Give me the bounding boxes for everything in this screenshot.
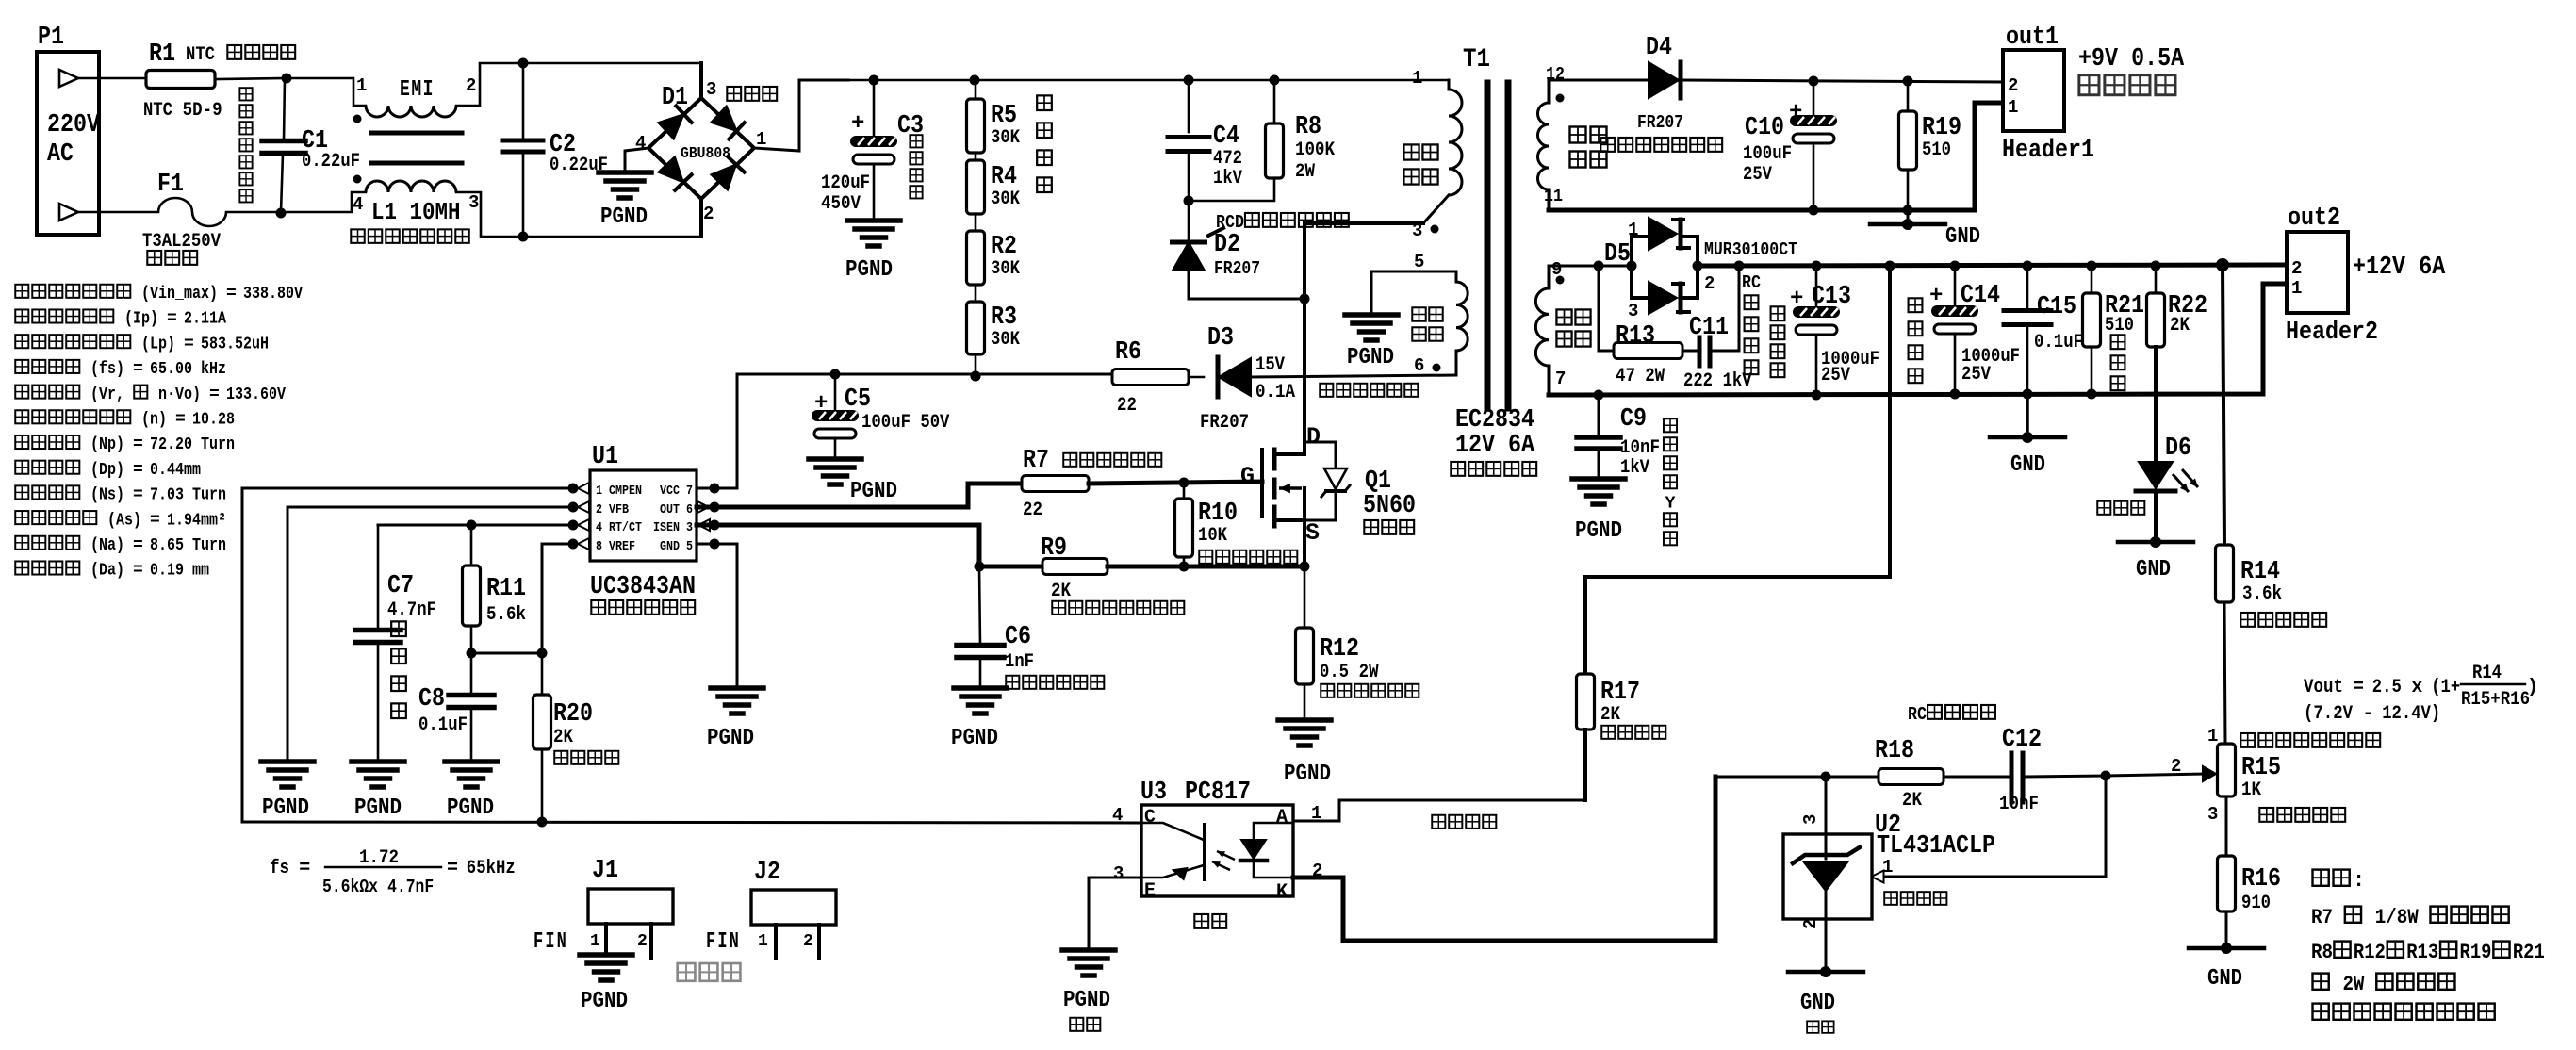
svg-text:22: 22 [1117, 395, 1137, 417]
wire sec9-D5 [1549, 261, 1604, 271]
formula fs [270, 847, 516, 897]
svg-text:S: S [1305, 519, 1320, 547]
svg-text:R5: R5 [991, 102, 1017, 130]
svg-text:GND: GND [1945, 224, 1980, 250]
svg-text:0.22uF: 0.22uF [302, 151, 360, 172]
resistor R4 [967, 153, 1021, 214]
svg-text:=: = [299, 858, 310, 879]
svg-text:1.94mm²: 1.94mm² [167, 511, 226, 530]
capacitor C6 [957, 566, 1104, 689]
svg-text:FIN: FIN [533, 929, 568, 955]
svg-text:12V 6A: 12V 6A [1455, 432, 1535, 460]
svg-text:=: = [447, 858, 458, 879]
svg-text:R13: R13 [1616, 322, 1655, 351]
svg-text:1kV: 1kV [1213, 168, 1242, 189]
svg-text:(7.2V: (7.2V [2304, 703, 2353, 725]
svg-text:=: = [175, 411, 186, 430]
svg-text:6: 6 [1414, 355, 1424, 376]
svg-text:2W: 2W [1645, 366, 1665, 387]
svg-text:=: = [133, 562, 143, 581]
svg-text:65.00: 65.00 [150, 360, 192, 379]
ground PGND (C5) [809, 459, 897, 504]
svg-text:C9: C9 [1620, 405, 1647, 434]
dual diode D5 [1599, 218, 1797, 321]
svg-text:22: 22 [1023, 500, 1042, 521]
svg-text:F1: F1 [157, 171, 184, 199]
svg-text::: : [2353, 869, 2365, 893]
svg-text:2: 2 [2008, 75, 2018, 96]
svg-text:OUT 6: OUT 6 [660, 503, 693, 517]
svg-text:D: D [1306, 423, 1321, 451]
svg-text:EC2834: EC2834 [1455, 406, 1534, 435]
svg-text:25V: 25V [1821, 365, 1850, 386]
svg-text:1: 1 [2008, 97, 2018, 118]
svg-text:C7: C7 [387, 572, 414, 600]
connector Header2 [2286, 205, 2446, 347]
resistor R5 [967, 80, 1021, 153]
svg-text:2K: 2K [2170, 315, 2190, 336]
connector J1 [533, 857, 673, 958]
svg-text:AC: AC [47, 140, 74, 169]
svg-text:+9V: +9V [2078, 45, 2119, 74]
svg-text:R19: R19 [1922, 114, 1961, 142]
svg-text:4.7nF: 4.7nF [387, 599, 436, 621]
svg-text:=: = [150, 511, 160, 530]
wire L1.2-rail [456, 58, 701, 107]
svg-text:2: 2 [703, 204, 714, 224]
svg-text:R8: R8 [1295, 113, 1321, 141]
diode D2 [1170, 201, 1304, 299]
svg-text:P1: P1 [38, 24, 64, 52]
svg-text:L1: L1 [371, 198, 397, 226]
resistor R6 [1112, 338, 1204, 417]
svg-text:out2: out2 [2288, 205, 2340, 233]
svg-text:R14: R14 [2472, 663, 2502, 684]
svg-text:2W: 2W [2342, 973, 2365, 996]
svg-text:C8: C8 [418, 685, 445, 714]
svg-text:MUR30100CT: MUR30100CT [1704, 239, 1797, 260]
svg-text:(Vr,: (Vr, [90, 386, 124, 404]
svg-text:C10: C10 [1745, 114, 1784, 142]
svg-text:UC3843AN: UC3843AN [590, 573, 696, 601]
wire U3.2 to R18 node [1293, 777, 1715, 941]
capacitor C5 [812, 374, 949, 459]
svg-text:2K: 2K [1051, 581, 1071, 602]
svg-text:=: = [2353, 677, 2364, 698]
capacitor C14 [1929, 266, 2020, 394]
svg-text:4 RT/CT: 4 RT/CT [596, 521, 642, 535]
svg-text:2: 2 [2171, 756, 2181, 777]
svg-text:R7: R7 [1023, 447, 1049, 475]
resistor R17 [1577, 266, 1891, 800]
wire R7-gate [1089, 478, 1262, 488]
svg-text:Turn: Turn [192, 536, 226, 555]
capacitor C1 [262, 78, 360, 212]
wire U2 ref [1872, 776, 2107, 883]
svg-text:C13: C13 [1812, 283, 1851, 311]
svg-text:PGND: PGND [845, 257, 893, 283]
svg-text:PGND: PGND [951, 726, 998, 751]
wire U1.2 net [287, 507, 573, 762]
wire 0V rail [1549, 284, 2288, 401]
svg-text:R12: R12 [1320, 635, 1359, 664]
wire C12-R15 wiper [2106, 756, 2216, 781]
svg-text:=: = [133, 461, 143, 480]
svg-text:D5: D5 [1604, 240, 1631, 269]
svg-text:R12: R12 [2354, 941, 2386, 964]
svg-text:PGND: PGND [707, 726, 754, 751]
svg-text:220V: 220V [47, 111, 101, 139]
svg-text:5D-9: 5D-9 [183, 100, 222, 122]
svg-text:RC: RC [1908, 704, 1927, 725]
svg-text:(n): (n) [141, 411, 167, 430]
svg-text:472: 472 [1213, 148, 1242, 170]
svg-text:25V: 25V [1743, 164, 1772, 186]
svg-text:72.20: 72.20 [150, 435, 192, 454]
svg-text:9: 9 [1551, 259, 1562, 280]
svg-text:out1: out1 [2006, 24, 2059, 52]
svg-text:12: 12 [1546, 64, 1565, 85]
svg-text:R15: R15 [2241, 754, 2281, 782]
svg-text:NTC: NTC [143, 100, 172, 122]
svg-text:10.28: 10.28 [192, 411, 235, 430]
svg-text:2K: 2K [1902, 790, 1922, 812]
wire U1.8 VREF [467, 544, 574, 659]
svg-text:+: + [814, 391, 828, 417]
svg-text:2: 2 [2291, 258, 2302, 279]
svg-text:(Na): (Na) [90, 536, 124, 555]
svg-text:1: 1 [1412, 68, 1422, 89]
resistor R8 [1184, 80, 1336, 206]
resistor R7 [1022, 447, 1161, 521]
svg-text:GND: GND [2136, 557, 2171, 582]
svg-text:R4: R4 [991, 163, 1017, 191]
svg-text:47: 47 [1616, 366, 1635, 387]
svg-text:510: 510 [1922, 139, 1951, 161]
svg-text:1.72: 1.72 [359, 847, 399, 869]
svg-text:VCC 7: VCC 7 [660, 484, 693, 499]
wire U1.5 GND [697, 544, 737, 688]
fuse F1 [99, 171, 226, 265]
label T1 [1451, 406, 1536, 476]
T1 primary winding [1403, 68, 1462, 241]
svg-text:5: 5 [1414, 252, 1424, 272]
diode D3 [1200, 324, 1456, 434]
capacitor C15 [2004, 266, 2083, 394]
svg-text:65kHz: 65kHz [467, 858, 516, 879]
svg-text:kHz: kHz [201, 360, 226, 379]
connector Header1 [2002, 24, 2185, 165]
capacitor C4 [1168, 80, 1242, 201]
svg-text:D2: D2 [1214, 231, 1240, 259]
svg-text:(fs): (fs) [90, 360, 124, 379]
ground PGND (D1) [599, 172, 651, 230]
svg-text:GND 5: GND 5 [660, 540, 693, 554]
wire U1.7 VCC [697, 374, 737, 488]
svg-text:D6: D6 [2165, 435, 2191, 463]
svg-text:D3: D3 [1207, 324, 1234, 353]
capacitor C13 [1790, 266, 1879, 395]
svg-text:R18: R18 [1875, 737, 1914, 765]
svg-text:T1: T1 [1463, 45, 1490, 74]
ground PGND (VFB) [261, 762, 314, 821]
ground GND (U2) [1788, 966, 1863, 1033]
svg-text:133.60V: 133.60V [226, 386, 286, 404]
svg-text:EMI: EMI [400, 77, 435, 103]
svg-text:Header1: Header1 [2002, 137, 2094, 165]
ground PGND (C8) [445, 762, 498, 821]
resistor R2 [967, 214, 1021, 285]
wire +12V rail [1698, 258, 2288, 271]
svg-text:A: A [1276, 807, 1288, 829]
svg-text:10nF: 10nF [1620, 437, 1660, 459]
svg-text:0.5: 0.5 [1320, 662, 1349, 683]
svg-text:1: 1 [356, 75, 367, 96]
svg-text:ISEN 3: ISEN 3 [653, 521, 693, 535]
resistor R19 [1899, 81, 1962, 210]
svg-text:D4: D4 [1646, 34, 1672, 62]
svg-text:C14: C14 [1961, 282, 2000, 310]
svg-text:PGND: PGND [1347, 345, 1394, 370]
svg-text:0.44mm: 0.44mm [150, 461, 201, 480]
resistor R11 [463, 525, 527, 653]
svg-text:R21: R21 [2513, 941, 2545, 964]
svg-text:1: 1 [590, 932, 600, 951]
LED D6 [2097, 347, 2198, 542]
svg-text:1: 1 [758, 932, 768, 951]
svg-text:+: + [1789, 100, 1802, 125]
wire R1-node-L1.1 [215, 74, 366, 107]
wire aux5-pgnd [1370, 271, 1373, 315]
wire VCC rail [737, 369, 1112, 489]
label RCD [1216, 212, 1349, 233]
svg-text:1: 1 [2291, 278, 2302, 299]
label secondary supply [1320, 384, 1418, 397]
svg-text:3: 3 [1800, 814, 1821, 825]
svg-text:15V: 15V [1255, 354, 1285, 376]
svg-text:2: 2 [803, 932, 813, 951]
svg-text:R7: R7 [2311, 906, 2333, 929]
svg-text:GBU808: GBU808 [681, 145, 730, 163]
capacitor C2 [503, 63, 608, 237]
resistor R3 [967, 285, 1021, 354]
svg-text:x: x [2411, 677, 2422, 698]
svg-text:=: = [167, 310, 177, 329]
ground GND (D6) [2118, 536, 2193, 582]
bridge rectifier D1 [625, 63, 848, 237]
svg-text:PGND: PGND [1575, 518, 1622, 544]
svg-text:TL431ACLP: TL431ACLP [1877, 832, 1995, 861]
wire R3-VCC rail [971, 354, 981, 382]
formula Vout [2304, 663, 2538, 725]
svg-text:C12: C12 [2002, 726, 2042, 754]
svg-text:=: = [184, 335, 194, 353]
wire U3.1 feedback [1293, 800, 1585, 829]
svg-text:2: 2 [466, 75, 476, 96]
svg-text:R10: R10 [1198, 500, 1238, 528]
svg-text:10nF: 10nF [1999, 794, 2039, 815]
label C13 vertical [1771, 306, 1785, 377]
svg-text:(Dp): (Dp) [90, 461, 124, 480]
wire HV rail [848, 75, 1449, 86]
wire U1.6 OUT [697, 484, 1022, 507]
svg-text:PGND: PGND [447, 796, 494, 821]
svg-text:R13: R13 [2406, 941, 2438, 964]
svg-text:Header2: Header2 [2286, 319, 2378, 347]
svg-text:J2: J2 [754, 859, 780, 887]
optocoupler U3 [1112, 779, 1322, 928]
svg-text:+: + [1790, 287, 1803, 312]
resistor R1 NTC [143, 41, 295, 122]
wire U3.3-pgnd [1089, 878, 1141, 950]
svg-text:-: - [2362, 703, 2373, 725]
svg-text:R3: R3 [991, 304, 1017, 332]
T1 aux winding [1371, 252, 1468, 376]
svg-text:8.65: 8.65 [150, 536, 184, 555]
svg-text:FR207: FR207 [1637, 112, 1683, 133]
ground PGND (U1) [707, 688, 763, 751]
wire drain [1300, 223, 1424, 429]
svg-text:583.52uH: 583.52uH [201, 335, 269, 353]
ground PGND (U3) [1062, 950, 1115, 1031]
svg-text:30K: 30K [991, 258, 1020, 280]
svg-text:2: 2 [1704, 273, 1715, 294]
wire P1.1-R1 [99, 77, 146, 80]
svg-text:(Ip): (Ip) [124, 310, 158, 329]
ground GND (fan) [1870, 210, 1980, 250]
ground PGND (aux) [1345, 315, 1398, 370]
svg-text:100uF: 100uF [861, 412, 911, 434]
svg-text:338.80V: 338.80V [243, 285, 303, 304]
svg-text:GND: GND [1800, 991, 1835, 1016]
svg-text:(As): (As) [107, 511, 141, 530]
svg-text:1: 1 [2207, 726, 2218, 746]
resistor R9 [979, 534, 1184, 615]
svg-text:1: 1 [756, 129, 766, 150]
resistor R14 [2216, 265, 2327, 744]
svg-text:R9: R9 [1041, 534, 1067, 563]
svg-text:C5: C5 [845, 386, 871, 414]
svg-text:4.7nF: 4.7nF [387, 877, 434, 897]
label C14 vertical [1909, 298, 1923, 383]
svg-text:+: + [851, 111, 864, 137]
resistor R22 [2147, 266, 2208, 347]
potentiometer R15 [2207, 726, 2380, 825]
svg-text:2.11A: 2.11A [184, 310, 226, 329]
label startup vertical [1037, 95, 1052, 192]
resistor R12 [1296, 566, 1419, 720]
svg-text:2K: 2K [553, 727, 573, 748]
svg-text:2W: 2W [1359, 662, 1379, 683]
svg-text:C: C [1144, 807, 1156, 829]
svg-text:1nF: 1nF [1005, 651, 1034, 673]
svg-text:mm: mm [192, 562, 209, 581]
svg-text:5.6k: 5.6k [486, 604, 526, 626]
svg-text:R20: R20 [553, 700, 593, 729]
label C3 vertical [910, 135, 922, 198]
svg-text:1 CMPEN: 1 CMPEN [596, 484, 642, 499]
svg-text:R14: R14 [2240, 558, 2280, 586]
svg-text:PGND: PGND [600, 205, 648, 230]
transistor Q1 MOSFET [1240, 423, 1416, 566]
svg-text:FR207: FR207 [1214, 258, 1260, 279]
svg-text:10K: 10K [1198, 525, 1227, 547]
svg-text:1kV: 1kV [1620, 457, 1649, 479]
resistor R10 [1175, 483, 1298, 566]
svg-text:1/8W: 1/8W [2375, 906, 2420, 929]
T1 fan winding [1538, 64, 1607, 210]
svg-text:=: = [209, 386, 220, 404]
resistor R20 [533, 653, 619, 828]
svg-text:R11: R11 [486, 575, 526, 603]
svg-text:=: = [226, 285, 237, 304]
svg-text:C4: C4 [1213, 123, 1239, 151]
svg-text:(Da): (Da) [90, 562, 124, 581]
capacitor C9 [1577, 395, 1660, 479]
svg-text:2 VFB: 2 VFB [596, 503, 629, 517]
svg-text:30K: 30K [991, 329, 1020, 351]
svg-text:+12V: +12V [2353, 254, 2406, 282]
svg-text:PGND: PGND [262, 796, 309, 821]
svg-text:J1: J1 [592, 857, 618, 885]
svg-text:C6: C6 [1005, 623, 1031, 651]
svg-text:G: G [1240, 463, 1255, 490]
connector P1 [37, 24, 101, 235]
svg-text:PGND: PGND [850, 479, 897, 504]
ground PGND (J1) [580, 955, 632, 1014]
svg-text:1K: 1K [2241, 779, 2261, 801]
svg-text:FR207: FR207 [1200, 412, 1249, 434]
svg-text:PC817: PC817 [1185, 779, 1251, 807]
svg-text:(Vin_max): (Vin_max) [141, 285, 218, 304]
svg-text:PGND: PGND [1284, 762, 1331, 787]
svg-text:100K: 100K [1295, 139, 1335, 161]
svg-text:7.03: 7.03 [150, 486, 184, 505]
svg-text:U1: U1 [592, 443, 618, 471]
svg-text:8 VREF: 8 VREF [596, 540, 635, 554]
wire L1.3-rail [456, 192, 701, 242]
svg-text:fs: fs [270, 858, 289, 879]
svg-text:0.19: 0.19 [150, 562, 184, 581]
svg-text:0.1uF: 0.1uF [418, 714, 468, 736]
svg-text:3: 3 [1113, 863, 1124, 884]
svg-text:D1: D1 [662, 84, 688, 112]
svg-text:(Np): (Np) [90, 435, 124, 454]
svg-text:5N60: 5N60 [1363, 492, 1416, 520]
notes [2311, 869, 2545, 1020]
svg-text:GND: GND [2207, 966, 2242, 992]
svg-text:PGND: PGND [581, 989, 628, 1014]
capacitor C7 [355, 525, 436, 762]
svg-text:5.6kΩx: 5.6kΩx [322, 877, 378, 897]
svg-text:222: 222 [1683, 370, 1713, 392]
resistor R18 [1715, 704, 1995, 812]
svg-text:=: = [133, 435, 143, 454]
ground PGND (R12) [1278, 720, 1331, 787]
svg-text:12.4V): 12.4V) [2382, 703, 2440, 725]
svg-text:6A: 6A [2419, 254, 2446, 282]
wire R9-source [1108, 562, 1310, 572]
ground PGND (C6) [951, 688, 1007, 751]
svg-text:n·Vo): n·Vo) [158, 386, 201, 404]
svg-text:PGND: PGND [354, 796, 402, 821]
svg-text:Turn: Turn [201, 435, 235, 454]
svg-text:=: = [133, 486, 143, 505]
wire F1-node-L1.4 [226, 192, 366, 219]
svg-text:R8: R8 [2311, 941, 2333, 964]
svg-text:3: 3 [1412, 221, 1422, 241]
diode D4 [1600, 34, 2003, 152]
